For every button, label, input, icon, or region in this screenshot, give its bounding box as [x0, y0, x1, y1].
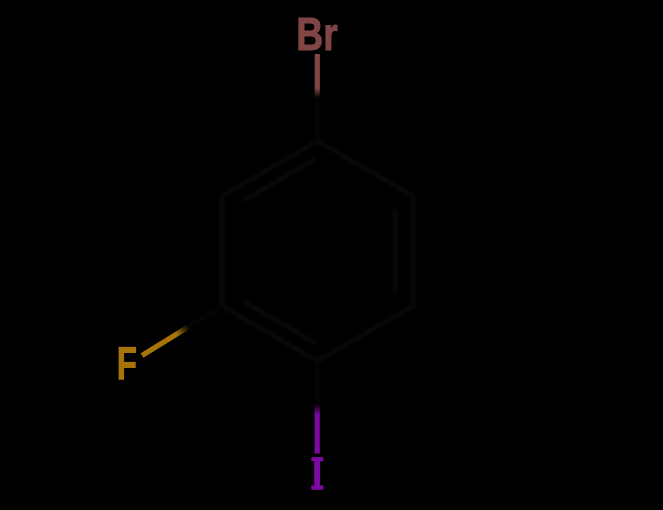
double bond inner line right edge	[393, 210, 398, 293]
bond C1-I (gradient purple to black)	[315, 361, 320, 454]
double bond inner line upper-left edge	[244, 158, 317, 200]
benzene ring outer edges (carbon, near-black)	[222, 141, 413, 361]
svg-text:Br: Br	[296, 8, 338, 60]
svg-text:F: F	[117, 337, 137, 389]
double bond inner line lower-left edge	[244, 302, 317, 344]
atom label I (serif style, drawn as rects)	[311, 457, 323, 490]
bond C2-F (gradient gold to black)	[142, 306, 222, 356]
bond C4-Br (gradient red to black)	[315, 54, 320, 141]
